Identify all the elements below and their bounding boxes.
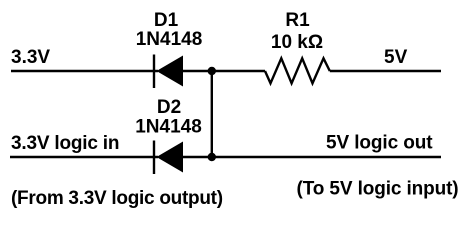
junction node B <box>208 153 216 161</box>
svg-text:5V logic out: 5V logic out <box>326 133 433 154</box>
wire: D1 anode to node A <box>183 70 265 72</box>
svg-text:(To 5V logic input): (To 5V logic input) <box>297 179 459 200</box>
wire: D2 anode to node B <box>183 156 212 158</box>
junction node A <box>208 67 216 75</box>
svg-text:R1: R1 <box>285 10 310 31</box>
svg-text:1N4148: 1N4148 <box>136 29 203 50</box>
svg-text:D1: D1 <box>154 10 179 31</box>
svg-text:3.3V logic in: 3.3V logic in <box>11 133 119 154</box>
svg-text:5V: 5V <box>384 47 408 68</box>
svg-text:D2: D2 <box>157 97 181 118</box>
wire: R1 to 5V rail <box>330 70 441 72</box>
svg-text:(From 3.3V logic output): (From 3.3V logic output) <box>11 188 223 209</box>
wire: node A to node B <box>211 71 213 157</box>
resistor R1 <box>265 58 330 83</box>
wire: 3.3V rail to D1 cathode <box>11 70 158 72</box>
wire: 3.3V logic in to D2 cathode <box>10 156 158 158</box>
svg-text:3.3V: 3.3V <box>11 47 50 68</box>
diode D1 <box>154 55 183 89</box>
svg-text:1N4148: 1N4148 <box>135 117 202 138</box>
svg-text:10 kΩ: 10 kΩ <box>271 32 323 53</box>
wire: node B to 5V logic out <box>212 156 441 158</box>
diode D2 <box>154 141 183 175</box>
